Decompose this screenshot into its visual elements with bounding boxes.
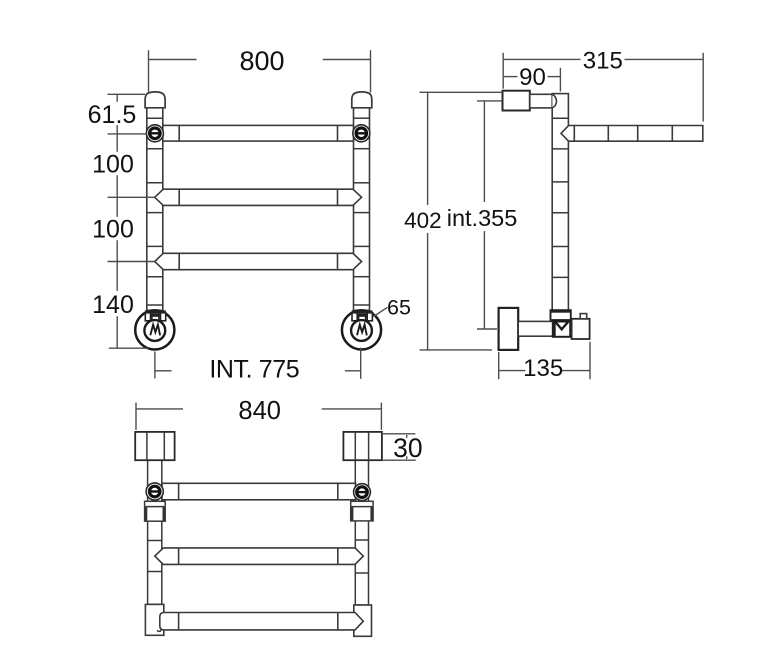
left valve V1 — [135, 310, 174, 349]
right post P2 — [354, 108, 370, 311]
dimension 30 — [382, 434, 416, 460]
plan bar 1 — [162, 483, 356, 500]
right valve block — [572, 319, 590, 339]
svg-text:840: 840 — [238, 397, 281, 425]
left post cap — [145, 92, 165, 108]
bottom wall block — [499, 308, 519, 350]
dimension 800 — [149, 50, 371, 92]
plan right post joints — [355, 540, 368, 573]
towel bar 1 — [163, 125, 354, 141]
bar1 right union fitting — [353, 125, 370, 142]
callout 65 — [374, 307, 388, 316]
right post cap — [352, 92, 372, 108]
bracket arm tip — [552, 95, 556, 108]
dimension int.355 — [477, 101, 502, 329]
svg-text:140: 140 — [92, 291, 134, 319]
svg-text:61.5: 61.5 — [88, 101, 137, 129]
svg-text:30: 30 — [393, 433, 422, 463]
plan right post — [355, 460, 368, 605]
right post joint lines — [354, 118, 370, 305]
valve collar — [551, 310, 571, 320]
plan right socket — [351, 501, 373, 521]
svg-text:100: 100 — [92, 151, 134, 179]
svg-text:135: 135 — [523, 355, 563, 382]
plan left post joints — [148, 541, 162, 572]
side post joint lines — [552, 118, 568, 277]
plan right wall bracket — [343, 432, 382, 460]
svg-text:90: 90 — [519, 64, 546, 91]
side rail (bar seen from side) — [561, 126, 703, 142]
plan left post — [148, 460, 162, 604]
plan right base — [354, 605, 372, 636]
left dimension chain — [108, 94, 155, 348]
rail segment dividers — [574, 126, 672, 142]
dimension 135 — [499, 342, 590, 379]
valve junction body — [553, 320, 570, 337]
plan left socket — [145, 501, 166, 521]
plan bar 2 — [155, 548, 363, 565]
bar1 left union fitting — [146, 125, 163, 142]
plan bar1 right union — [354, 484, 371, 501]
svg-text:65: 65 — [387, 296, 411, 320]
left post joint lines — [147, 118, 163, 305]
svg-text:100: 100 — [92, 216, 134, 244]
side post — [552, 94, 568, 311]
dimension 402 — [420, 92, 503, 350]
plan left base — [145, 604, 163, 635]
dimension 90 — [503, 68, 560, 92]
svg-text:int.355: int.355 — [447, 205, 518, 231]
towel bar 3 — [155, 253, 362, 269]
valve V symbol — [555, 321, 569, 329]
left post P1 — [147, 108, 163, 311]
bracket arm — [530, 94, 552, 108]
plan bar 3 end curl — [157, 630, 161, 632]
plan bar 3 — [160, 613, 363, 630]
svg-text:800: 800 — [239, 46, 284, 76]
right valve V2 — [342, 310, 381, 349]
svg-text:INT. 775: INT. 775 — [209, 356, 299, 384]
plan left wall bracket — [135, 432, 174, 460]
dimension 840 — [136, 403, 381, 430]
dimension INT. 775 — [155, 348, 361, 379]
bottom pipe — [518, 321, 553, 336]
towel bar 2 — [155, 189, 362, 205]
plan bar1 left union — [146, 483, 163, 500]
dimension 315 — [503, 53, 703, 122]
svg-text:315: 315 — [583, 48, 623, 75]
svg-text:402: 402 — [404, 208, 442, 233]
top wall bracket — [503, 91, 530, 111]
valve cap square — [580, 314, 587, 319]
